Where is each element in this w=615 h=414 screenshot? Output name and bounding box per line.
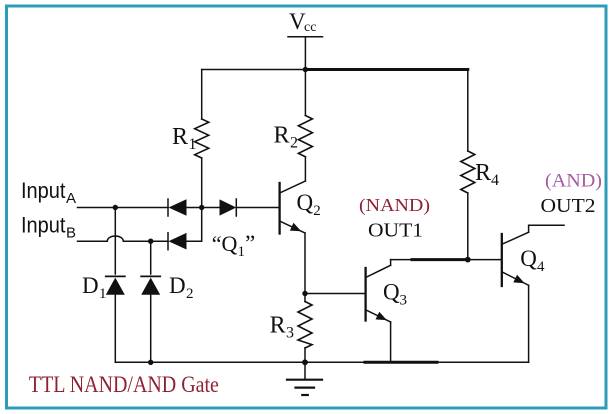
svg-text:R: R xyxy=(475,160,491,186)
svg-text:R: R xyxy=(270,313,286,339)
R3 label xyxy=(270,313,294,342)
node OUT1 / R4 xyxy=(465,257,471,263)
svg-text:cc: cc xyxy=(304,20,317,35)
svg-text:Q: Q xyxy=(297,190,314,215)
node input B / D2 xyxy=(148,239,153,244)
svg-text:OUT2: OUT2 xyxy=(541,195,596,217)
svg-text:A: A xyxy=(66,190,76,207)
transistor Q4 xyxy=(502,232,529,286)
svg-text:Q: Q xyxy=(520,246,537,271)
wire input B with hop over D1 branch xyxy=(78,236,169,241)
D2 label xyxy=(169,273,194,302)
wire top rail left (node Vcc to R1) xyxy=(202,69,306,71)
svg-text:2: 2 xyxy=(186,286,194,302)
node bottom rail / D2 xyxy=(148,360,153,365)
wire bottom rail xyxy=(115,361,528,363)
wire input B diode to R1 column xyxy=(187,208,202,242)
node input A / R1 xyxy=(199,205,204,210)
svg-text:4: 4 xyxy=(491,172,499,189)
InputB label xyxy=(21,213,76,242)
svg-text:3: 3 xyxy=(286,325,294,342)
svg-text:(NAND): (NAND) xyxy=(359,195,430,215)
svg-text:R: R xyxy=(274,123,290,149)
svg-text:Q: Q xyxy=(383,279,400,304)
wire Q4 collector to OUT2 xyxy=(529,225,564,232)
resistor R2 xyxy=(298,70,312,182)
R1 label xyxy=(172,124,197,153)
wire base diode to Q2 xyxy=(236,207,278,209)
diode D2 xyxy=(141,276,160,362)
diode Q1 base-collector (to Q2 base) xyxy=(220,199,237,216)
D1 label xyxy=(82,273,107,302)
svg-text:“Q1”: “Q1” xyxy=(212,231,255,260)
svg-text:1: 1 xyxy=(99,286,107,302)
Q3 label xyxy=(383,279,407,308)
wire D2 branch vertical xyxy=(150,241,152,274)
diode Q1 emitter A (input A) xyxy=(168,199,187,216)
node top rail junction xyxy=(303,67,308,72)
resistor R3 xyxy=(298,294,312,363)
diode Q1 emitter B (input B) xyxy=(168,233,187,250)
Vcc power symbol xyxy=(288,37,323,70)
wire input A xyxy=(78,207,169,209)
wire Q2 emitter down xyxy=(304,233,306,294)
svg-text:2: 2 xyxy=(313,203,321,219)
InputA label xyxy=(21,178,76,207)
svg-text:Input: Input xyxy=(21,213,66,238)
Q4 label xyxy=(520,246,545,275)
node bottom rail / R3 ground xyxy=(302,359,308,365)
wire Q3 emitter down xyxy=(390,322,392,362)
svg-text:1: 1 xyxy=(189,136,197,153)
transistor Q3 xyxy=(366,265,391,322)
wire OUT1 bold segment xyxy=(412,258,466,261)
svg-text:D: D xyxy=(169,273,186,298)
node input A / D1 xyxy=(113,205,118,210)
R2 label xyxy=(274,123,299,152)
wire Q3 collector up xyxy=(390,260,392,266)
svg-text:B: B xyxy=(66,224,76,241)
ground xyxy=(287,362,322,395)
R4 label xyxy=(475,160,499,189)
svg-text:OUT1: OUT1 xyxy=(368,220,423,242)
svg-text:3: 3 xyxy=(400,292,408,308)
wire node to Q3 base xyxy=(305,293,364,295)
resistor R4 xyxy=(461,70,475,260)
node Q2 emitter / R3 / Q3 base xyxy=(302,291,307,296)
svg-text:D: D xyxy=(82,273,99,298)
svg-text:2: 2 xyxy=(290,135,298,152)
svg-text:TTL NAND/AND Gate: TTL NAND/AND Gate xyxy=(29,372,219,398)
diode D1 xyxy=(106,276,125,362)
Q2 label xyxy=(297,190,321,219)
svg-text:R: R xyxy=(172,124,188,150)
wire Q4 emitter down xyxy=(528,285,530,362)
wire input A diode to base diode xyxy=(187,207,220,209)
wire top rail right bold (node Vcc to R4) xyxy=(305,68,467,71)
svg-text:4: 4 xyxy=(537,259,545,275)
wire bottom rail bold overlay xyxy=(365,361,437,364)
svg-text:Input: Input xyxy=(21,178,66,203)
transistor Q2 xyxy=(280,181,306,234)
wire OUT1 line (Q3 collector to Q4 base) xyxy=(391,259,502,261)
resistor R1 xyxy=(195,70,209,208)
svg-text:(AND): (AND) xyxy=(545,171,602,191)
wire D1 branch vertical xyxy=(114,208,116,275)
